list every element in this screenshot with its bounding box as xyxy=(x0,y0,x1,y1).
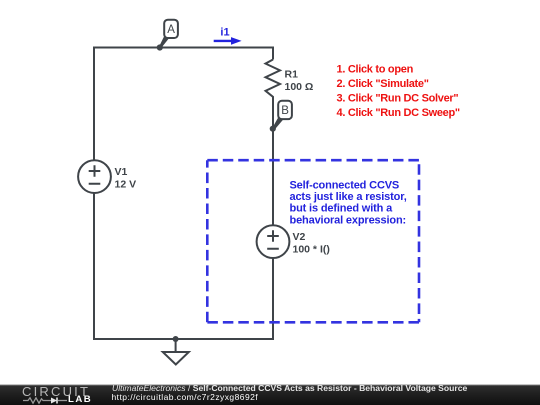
svg-text:Self-connected CCVS: Self-connected CCVS xyxy=(290,179,400,191)
svg-text:V1: V1 xyxy=(115,166,128,178)
svg-text:12 V: 12 V xyxy=(115,179,137,191)
svg-text:4. Click "Run DC Sweep": 4. Click "Run DC Sweep" xyxy=(337,107,460,119)
svg-text:B: B xyxy=(281,105,289,117)
svg-text:behavioral expression:: behavioral expression: xyxy=(290,214,407,226)
svg-text:V2: V2 xyxy=(293,231,306,243)
svg-text:acts just like a resistor,: acts just like a resistor, xyxy=(290,191,407,203)
svg-text:2. Click "Simulate": 2. Click "Simulate" xyxy=(337,78,429,90)
svg-text:i1: i1 xyxy=(220,26,229,38)
svg-text:A: A xyxy=(167,24,175,36)
svg-text:100 Ω: 100 Ω xyxy=(285,81,314,93)
svg-text:but is defined with a: but is defined with a xyxy=(290,203,394,215)
svg-text:3. Click "Run DC Solver": 3. Click "Run DC Solver" xyxy=(337,92,459,104)
svg-text:1. Click to open: 1. Click to open xyxy=(337,64,414,76)
svg-text:R1: R1 xyxy=(285,69,299,81)
svg-text:100 * I(): 100 * I() xyxy=(293,244,330,256)
